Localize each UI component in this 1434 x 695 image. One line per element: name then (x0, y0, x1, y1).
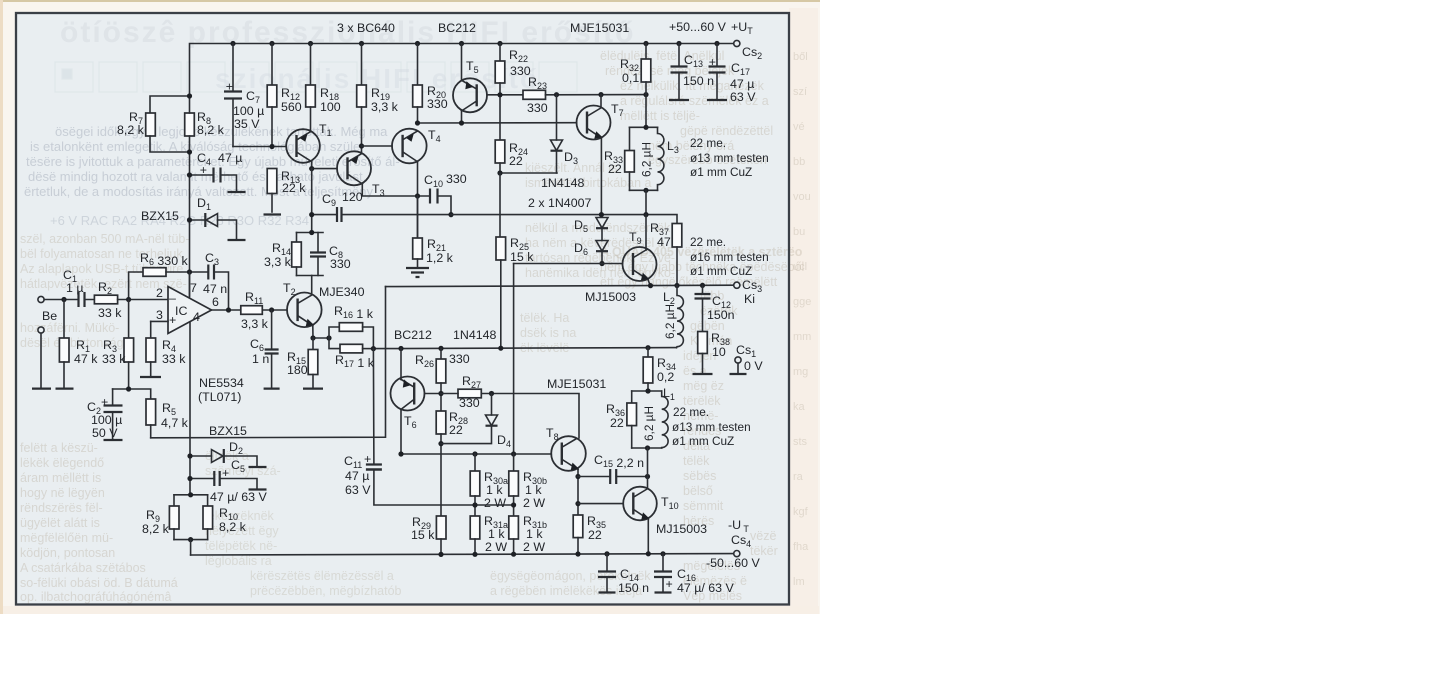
wire T7 collector (600, 95, 602, 106)
schematic frame (16, 13, 789, 605)
wire T3 collector stub (361, 146, 363, 152)
wire main left vertical (R8 column) (189, 96, 191, 296)
svg-text:lëglobális ra: lëglobális ra (205, 554, 272, 568)
inductor L2 (677, 286, 684, 348)
svg-text:+: + (222, 466, 229, 480)
schematic paper (17, 14, 788, 604)
svg-text:330: 330 (427, 97, 448, 111)
svg-text:3,3 k: 3,3 k (264, 255, 292, 269)
svg-text:mm: mm (793, 331, 811, 343)
svg-text:63 V: 63 V (730, 90, 756, 104)
svg-text:150 n: 150 n (618, 581, 649, 595)
svg-text:tësëre is jvitottuk a parametë: tësëre is jvitottuk a parametëreket. Egy… (26, 154, 400, 169)
resistor R37 (672, 224, 682, 248)
svg-text:-50...60 V: -50...60 V (706, 556, 760, 570)
resistor R9 (173, 495, 175, 506)
svg-text:15 k: 15 k (510, 250, 534, 264)
svg-text:NE5534: NE5534 (199, 376, 244, 390)
svg-text:bu: bu (793, 226, 805, 238)
resistor R1 (63, 300, 65, 339)
svg-text:15 k: 15 k (411, 528, 435, 542)
capacitor C10 (430, 189, 438, 204)
capacitor C8 (317, 233, 319, 276)
svg-text:vé: vé (793, 121, 805, 133)
svg-text:47: 47 (657, 235, 671, 249)
svg-text:1 k: 1 k (486, 483, 503, 497)
resistor R25 (496, 237, 506, 260)
svg-text:2: 2 (156, 286, 163, 300)
wire T5 collector (461, 44, 463, 81)
svg-text:áram mëllëtt is: áram mëllëtt is (20, 471, 101, 485)
zener diode D2 (190, 456, 257, 467)
svg-text:3: 3 (156, 308, 163, 322)
svg-text:47 n: 47 n (203, 282, 227, 296)
svg-text:100 µ: 100 µ (233, 104, 264, 118)
capacitor C12 (702, 285, 704, 294)
svg-text:330: 330 (330, 257, 351, 271)
resistor R14 (296, 233, 298, 243)
wire op-amp pin3 (151, 320, 168, 322)
diode D5 (596, 218, 608, 229)
wire T2 emitter node (313, 326, 329, 338)
svg-text:330: 330 (527, 101, 548, 115)
svg-text:tëlëpëtëk në-: tëlëpëtëk në- (205, 539, 277, 553)
svg-text:BC212: BC212 (394, 328, 432, 342)
svg-text:hozzáfërni. Mükö-: hozzáfërni. Mükö- (20, 321, 119, 335)
svg-text:47 µ/ 63 V: 47 µ/ 63 V (677, 581, 734, 595)
wire T9 collector (645, 215, 647, 250)
svg-text:8,2 k: 8,2 k (197, 123, 225, 137)
svg-text:7: 7 (190, 281, 197, 295)
wire op-amp pin4 column down (189, 322, 191, 495)
parallel network R14 C8 bottom bar (297, 275, 324, 277)
svg-text:mg: mg (793, 366, 808, 378)
resistor R3 (128, 300, 130, 339)
svg-text:22: 22 (449, 423, 463, 437)
svg-text:1 k: 1 k (526, 527, 543, 541)
wire T9 base line (514, 263, 623, 265)
wire emitter bus y348 (373, 348, 676, 349)
capacitor C17 (716, 44, 718, 67)
svg-text:100: 100 (320, 100, 341, 114)
op-amp U1 NE5534 (168, 287, 212, 334)
svg-text:3 x BC640: 3 x BC640 (337, 21, 395, 35)
svg-text:sëbës: sëbës (683, 469, 716, 483)
wire T6 collector (400, 409, 402, 454)
resistor R23 (523, 90, 546, 99)
wire T1 base line (233, 146, 286, 148)
svg-text:22: 22 (608, 162, 622, 176)
transistor T4 (392, 129, 427, 164)
transistor T10 (623, 487, 657, 521)
resistor R17 (329, 338, 340, 349)
parallel network R9 R10 top bar (174, 494, 208, 496)
svg-text:tëlëk. Ha: tëlëk. Ha (520, 311, 569, 325)
svg-text:1 k: 1 k (488, 527, 505, 541)
wire R7/R8 top bar (150, 96, 190, 113)
transistor T2 (287, 293, 322, 328)
svg-text:0,2: 0,2 (657, 370, 674, 384)
svg-text:63 V: 63 V (345, 483, 371, 497)
transistor T5 (453, 78, 487, 112)
zener diode D1 (190, 220, 237, 240)
svg-text:100 µ: 100 µ (91, 413, 122, 427)
resistor R34 (647, 348, 649, 357)
parallel network R9 R10 bottom bar (174, 539, 208, 541)
svg-text:ből: ből (793, 51, 808, 63)
svg-text:BC212: BC212 (438, 21, 476, 35)
wire T3 emitter / T4 emitter / C10 line (362, 184, 451, 214)
wire D6 to T9 base node (601, 251, 603, 263)
svg-text:Ki: Ki (744, 292, 755, 306)
svg-text:3,3 k: 3,3 k (371, 100, 399, 114)
svg-text:35 V: 35 V (234, 117, 260, 131)
resistor R5 (146, 399, 156, 425)
diode D6 (601, 228, 603, 240)
svg-text:47 µ/ 63 V: 47 µ/ 63 V (210, 490, 267, 504)
svg-text:kgf: kgf (793, 506, 809, 518)
svg-text:2 W: 2 W (523, 540, 545, 554)
svg-text:hogy në lëgyën: hogy në lëgyën (20, 486, 105, 500)
svg-text:47 µ: 47 µ (218, 151, 242, 165)
svg-text:ëlëdulëjs, fëtë. Anëlkül: ëlëdulëjs, fëtë. Anëlkül (600, 49, 724, 63)
resistor R28 (436, 411, 446, 434)
parallel network R14 C8 top bar (297, 232, 324, 234)
svg-text:MJE15031: MJE15031 (547, 377, 606, 391)
svg-text:+: + (169, 313, 176, 327)
resistor R4 (150, 321, 152, 338)
wire T6 emitter (400, 349, 402, 380)
svg-text:lm: lm (793, 576, 805, 588)
resistor R32 (645, 44, 647, 60)
wire input line (44, 299, 94, 301)
svg-text:MJE15031: MJE15031 (570, 21, 629, 35)
svg-text:2 x 1N4007: 2 x 1N4007 (528, 196, 591, 210)
wire T1 column down to C9 bus and R14 net (311, 169, 313, 233)
svg-text:ra: ra (793, 471, 804, 483)
svg-text:4: 4 (193, 310, 200, 324)
svg-text:MJ15003: MJ15003 (585, 290, 636, 304)
capacitor C9 on VAS bus (312, 214, 451, 216)
terminal Cs4 (734, 551, 740, 557)
svg-text:150 n: 150 n (683, 74, 714, 88)
svg-text:BZX15: BZX15 (209, 424, 247, 438)
svg-text:tëlëk: tëlëk (683, 454, 710, 468)
svg-text:50 V: 50 V (92, 426, 118, 440)
diode D3 (556, 95, 558, 140)
svg-text:1N4148: 1N4148 (453, 328, 497, 342)
svg-text:560: 560 (281, 100, 302, 114)
resistor R27 (458, 389, 481, 398)
resistor R24 (495, 140, 505, 163)
svg-text:ø1 mm CuZ: ø1 mm CuZ (672, 434, 734, 448)
svg-text:330: 330 (449, 352, 470, 366)
wire network to T2 collector (311, 276, 313, 294)
svg-text:0,1: 0,1 (622, 71, 639, 85)
capacitor C7 (232, 44, 234, 92)
wire output bus y286 (386, 285, 734, 286)
svg-text:ø16 mm testen: ø16 mm testen (690, 250, 769, 264)
resistor R8 (185, 113, 195, 136)
svg-text:330: 330 (459, 396, 480, 410)
svg-text:1,2 k: 1,2 k (426, 251, 454, 265)
resistor R22 (499, 44, 501, 62)
wire T4 base line (362, 145, 393, 147)
svg-text:sts: sts (793, 436, 808, 448)
transistor T6 (391, 377, 425, 411)
resistor R36 (631, 391, 633, 403)
svg-text:rëndszërës fël-: rëndszërës fël- (20, 501, 103, 515)
diode D4 (491, 394, 493, 416)
resistor R29 (436, 516, 446, 539)
resistor R16 (329, 327, 339, 338)
capacitor C3 (208, 265, 214, 280)
wire L3 bottom to bias bus (645, 190, 647, 214)
svg-text:+: + (101, 395, 108, 409)
svg-text:47 k: 47 k (74, 352, 98, 366)
wire negative feedback bus y438 (151, 287, 386, 438)
svg-text:so-fëlüki obási öd. B dátumá: so-fëlüki obási öd. B dátumá (20, 576, 178, 590)
wire bias column down to T8 base bus (513, 264, 515, 455)
capacitor C16 (662, 554, 664, 572)
svg-text:gge: gge (793, 296, 811, 308)
wire C11 column (372, 349, 375, 465)
wire R25 column (499, 173, 501, 237)
svg-text:–: – (169, 291, 176, 305)
resistor R30b (513, 454, 515, 471)
wire R9R10 node to bottom bus (190, 540, 192, 555)
svg-text:vou: vou (793, 191, 811, 203)
capacitor C11 (366, 463, 382, 465)
svg-text:(TL071): (TL071) (198, 390, 241, 404)
wire T1 emitter to T3 base (312, 162, 337, 169)
svg-text:6,2 µH: 6,2 µH (642, 406, 656, 441)
wire op-amp pin7 (189, 272, 191, 297)
svg-text:33 k: 33 k (98, 306, 122, 320)
svg-text:+: + (364, 452, 371, 466)
svg-text:8,2 k: 8,2 k (117, 123, 145, 137)
resistor R13 (267, 169, 277, 194)
svg-text:felëtt a këszü-: felëtt a këszü- (20, 441, 98, 455)
svg-text:BZX15: BZX15 (141, 209, 179, 223)
svg-text:MJE340: MJE340 (319, 285, 365, 299)
svg-text:IC: IC (175, 304, 187, 318)
svg-text:1N4148: 1N4148 (541, 176, 585, 190)
capacitor C15 (578, 476, 648, 478)
svg-text:A csatárkába szëtábos: A csatárkába szëtábos (20, 561, 146, 575)
node rail junctions (230, 41, 235, 46)
terminal Cs3 (734, 282, 740, 288)
svg-text:ködjön, pontosan: ködjön, pontosan (20, 546, 115, 560)
svg-text:sëmmit: sëmmit (683, 499, 724, 513)
transistor T3 (337, 151, 371, 185)
svg-text:mëgfëlëlőën mü-: mëgfëlëlőën mü- (20, 531, 113, 545)
inductor L1 coil (662, 391, 668, 448)
svg-text:+: + (709, 55, 716, 69)
resistor R18 (310, 44, 312, 86)
inductor L3 bottom bar (630, 189, 658, 191)
resistor R19 (361, 44, 363, 86)
svg-text:2 W: 2 W (523, 496, 545, 510)
svg-text:4,7 k: 4,7 k (161, 416, 189, 430)
inductor L1 with R36 top bar (632, 390, 662, 392)
svg-text:22: 22 (509, 154, 523, 168)
resistor R30a (474, 454, 476, 471)
resistor R31a (470, 516, 480, 539)
wire T10 base (578, 503, 623, 505)
terminal Be input (38, 296, 44, 302)
wire T9 emitter to output bus (648, 280, 651, 287)
wire R3 bottom node to C2 and R5 (113, 389, 151, 399)
svg-text:47 µ: 47 µ (345, 469, 369, 483)
capacitor C5 (190, 479, 257, 490)
inductor L3 with R33 top bar (630, 126, 658, 128)
svg-text:330: 330 (446, 172, 467, 186)
svg-text:ø13 mm testen: ø13 mm testen (672, 420, 751, 434)
svg-text:ügyëlët alátt is: ügyëlët alátt is (20, 516, 100, 530)
svg-text:ø1 mm CuZ: ø1 mm CuZ (690, 264, 752, 278)
svg-text:dësë mindig hozott ra valamit: dësë mindig hozott ra valamit mërhető és… (28, 169, 366, 184)
resistor R10 (207, 495, 209, 506)
transistor T9 (623, 247, 657, 281)
wire T8 emitter column (577, 470, 579, 516)
svg-text:szí: szí (793, 86, 807, 98)
svg-text:ø1 mm CuZ: ø1 mm CuZ (690, 165, 752, 179)
wire T5 base to R22 node (487, 94, 523, 96)
capacitor C13 (678, 44, 680, 67)
svg-text:120: 120 (342, 190, 363, 204)
svg-text:+50...60 V: +50...60 V (669, 20, 727, 34)
wire L1 bottom to T10 collector (647, 448, 649, 488)
svg-text:Be: Be (42, 309, 57, 323)
svg-text:mëg ëz: mëg ëz (683, 379, 724, 393)
svg-text:47 µ: 47 µ (730, 77, 754, 91)
capacitor C1 (79, 292, 85, 307)
svg-text:1 µ: 1 µ (66, 281, 83, 295)
capacitor C4 (190, 175, 237, 192)
svg-text:33 k: 33 k (102, 352, 126, 366)
svg-text:vëzë: vëzë (750, 529, 776, 543)
inductor L1 bottom bar (632, 447, 662, 449)
svg-text:prëcëzëbbën, mëgbízhatób: prëcëzëbbën, mëgbízhatób (250, 584, 402, 598)
wire VAS bus y214 to right (451, 215, 677, 224)
resistor R15 (312, 338, 314, 350)
transistor T1 (286, 129, 320, 163)
svg-text:8,2 k: 8,2 k (142, 522, 170, 536)
svg-text:22 me.: 22 me. (690, 136, 726, 150)
resistor R7 (146, 113, 156, 136)
svg-text:22 k: 22 k (282, 181, 306, 195)
svg-text:8,2 k: 8,2 k (219, 520, 247, 534)
svg-text:+: + (666, 577, 673, 591)
wire R7 bottom / bottom bar (150, 136, 190, 152)
svg-text:ka: ka (793, 401, 806, 413)
resistor R2 (94, 295, 117, 304)
ground R21 (406, 268, 429, 277)
svg-text:dsëk is na: dsëk is na (520, 326, 576, 340)
svg-text:0 V: 0 V (744, 359, 763, 373)
svg-text:kërëszëtës ëlëmëzëssël a: kërëszëtës ëlëmëzëssël a (250, 569, 394, 583)
resistor R6 (129, 272, 143, 300)
wire predriver bus y123 (418, 122, 577, 124)
resistor R11 (241, 306, 262, 315)
transistor T7 (577, 106, 611, 140)
resistor R38 (698, 332, 708, 354)
terminal Be ground (38, 327, 44, 333)
transistor T8 (551, 436, 586, 471)
wire T6 base (425, 393, 442, 395)
svg-text:22: 22 (610, 416, 624, 430)
svg-text:3,3 k: 3,3 k (241, 317, 269, 331)
svg-text:fha: fha (793, 541, 809, 553)
svg-text:6,2 µH: 6,2 µH (663, 304, 677, 339)
svg-text:22 me.: 22 me. (690, 235, 726, 249)
resistor R33 (629, 127, 631, 150)
svg-text:6: 6 (212, 295, 219, 309)
terminal Cs2 (734, 40, 740, 46)
capacitor C14 (606, 554, 608, 572)
svg-text:2 W: 2 W (484, 496, 506, 510)
inductor L3 coil (658, 127, 664, 190)
svg-text:bb: bb (793, 156, 805, 168)
svg-text:+: + (226, 80, 233, 94)
svg-text:150n: 150n (707, 308, 735, 322)
svg-text:2 W: 2 W (485, 540, 507, 554)
svg-text:6,2 µH: 6,2 µH (640, 142, 654, 177)
wire T7 emitter down to bias bus (600, 138, 602, 215)
svg-text:MJ15003: MJ15003 (656, 522, 707, 536)
resistor R31b (509, 516, 519, 539)
resistor R35 (573, 515, 583, 538)
svg-text:lëkëk ëlëgendő: lëkëk ëlëgendő (20, 456, 104, 470)
svg-text:10: 10 (712, 345, 726, 359)
wire T10 emitter (647, 519, 649, 554)
svg-text:22 me.: 22 me. (673, 405, 709, 419)
capacitor C2 (112, 389, 114, 406)
wire positive supply rail (190, 44, 734, 97)
resistor R21 (417, 196, 419, 238)
svg-text:szël, azonban 500 mA-nël tüb-: szël, azonban 500 mA-nël tüb- (20, 232, 190, 246)
svg-text:bëlső: bëlső (683, 484, 713, 498)
svg-text:ø13 mm testen: ø13 mm testen (690, 151, 769, 165)
svg-text:op. ilbatchográfúhágónémâ: op. ilbatchográfúhágónémâ (20, 590, 172, 604)
svg-text:ucl: ucl (793, 261, 807, 273)
resistor R12 (271, 44, 273, 86)
svg-text:mëllëtt is tëljë-: mëllëtt is tëljë- (620, 109, 700, 123)
svg-text:22: 22 (588, 528, 602, 542)
svg-text:1 n: 1 n (252, 352, 269, 366)
resistor R20 (417, 44, 419, 86)
svg-text:1 k: 1 k (525, 483, 542, 497)
wire T8 base bus y454 (401, 453, 551, 455)
capacitor C6 (271, 310, 273, 350)
wire op-amp output pin6 (212, 309, 241, 311)
wire T5 emitter to bus (461, 111, 463, 123)
svg-text:180: 180 (287, 363, 308, 377)
wire bottom bus (191, 554, 734, 555)
svg-text:33 k: 33 k (162, 352, 186, 366)
resistor R26 (440, 348, 442, 359)
